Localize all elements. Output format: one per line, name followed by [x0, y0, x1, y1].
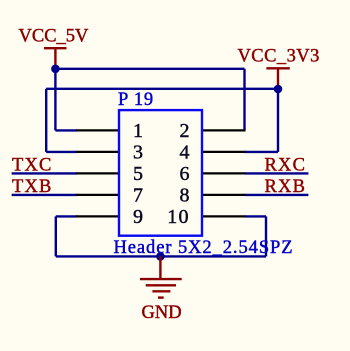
svg-text:2: 2: [180, 120, 190, 142]
wire horizontal into pin 3: [46, 151, 77, 153]
wire VCC_5V vertical down to pin 1: [54, 69, 56, 131]
svg-text:3: 3: [133, 142, 143, 164]
svg-text:RXB: RXB: [265, 177, 307, 197]
svg-text:9: 9: [133, 206, 143, 228]
svg-text:TXB: TXB: [12, 177, 53, 197]
power port VCC_5V stem: [54, 48, 56, 69]
svg-text:TXC: TXC: [12, 155, 53, 175]
component body P19 header box: [119, 110, 202, 236]
svg-text:7: 7: [133, 185, 143, 207]
svg-text:VCC_3V3: VCC_3V3: [238, 47, 320, 67]
wire pin 10 to ground rail: [245, 215, 266, 217]
pin 2: [202, 129, 246, 131]
pin 7: [76, 194, 119, 196]
pin 1: [76, 129, 119, 131]
pin 6: [202, 172, 246, 174]
wire net TXC: [12, 172, 77, 174]
svg-text:GND: GND: [142, 303, 182, 323]
power port VCC_3V3 stem: [277, 68, 279, 89]
wire VCC_5V horizontal rail to pin 2: [55, 68, 244, 70]
wire vertical down to pin 2: [243, 69, 245, 131]
power port VCC_5V bar: [44, 47, 67, 49]
wire net TXB: [12, 194, 77, 196]
svg-text:4: 4: [180, 142, 190, 164]
svg-text:5: 5: [133, 163, 143, 185]
svg-text:P 19: P 19: [118, 90, 154, 110]
pin 8: [202, 194, 246, 196]
pin 9: [76, 215, 119, 217]
ground bar 4: [158, 296, 164, 298]
ground bar 2: [146, 284, 176, 286]
wire net RXB: [245, 194, 308, 196]
pin 5: [76, 172, 119, 174]
wire vertical down to pin 3: [45, 89, 47, 152]
svg-text:Header 5X2_2.54SPZ: Header 5X2_2.54SPZ: [114, 238, 294, 258]
wire horizontal into pin 1: [55, 129, 77, 131]
ground bar 3: [152, 290, 170, 292]
wire vertical pin 10 down: [265, 216, 267, 256]
wire VCC_3V3 vertical down to pin 4: [277, 89, 279, 152]
junction VCC_3V3: [274, 85, 283, 94]
wire ground rail: [56, 255, 266, 257]
pin 3: [76, 151, 119, 153]
svg-text:RXC: RXC: [265, 155, 307, 175]
ground stem: [159, 256, 161, 278]
svg-text:VCC_5V: VCC_5V: [19, 27, 90, 47]
wire net RXC: [245, 172, 308, 174]
wire horizontal into pin 4: [245, 151, 279, 153]
wire pin 9 to ground rail: [56, 215, 77, 217]
junction VCC_5V: [51, 65, 60, 74]
svg-text:10: 10: [167, 206, 189, 228]
svg-text:8: 8: [180, 185, 190, 207]
power port VCC_3V3 bar: [266, 67, 289, 69]
wire VCC_3V3 horizontal rail to left: [46, 88, 278, 90]
svg-text:1: 1: [133, 120, 143, 142]
ground bar 1: [140, 278, 182, 280]
wire vertical pin 9 down: [55, 216, 57, 256]
pin 10: [202, 215, 246, 217]
svg-text:6: 6: [180, 163, 190, 185]
pin 4: [202, 151, 246, 153]
junction ground rail: [156, 252, 165, 261]
